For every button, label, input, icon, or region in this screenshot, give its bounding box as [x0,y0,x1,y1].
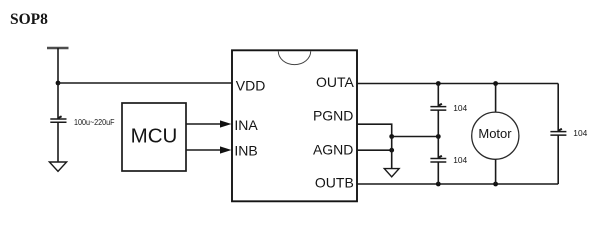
svg-text:100u~220uF: 100u~220uF [74,117,115,127]
ground (left) [49,162,66,171]
wire: C1 to ground [57,122,59,162]
node dot OUTA/motor [493,81,498,86]
node dot PGND/AGND mid [389,134,394,139]
svg-text:SOP8: SOP8 [10,11,48,28]
svg-text:AGND: AGND [313,141,353,157]
svg-text:OUTA: OUTA [316,74,355,90]
wire: down to ground [391,137,393,169]
node dot AGND [389,148,394,153]
pin-1 notch [278,51,310,64]
node dot OUTB/C3 [436,182,441,187]
wire: MCU to INA (arrow) [186,120,232,127]
svg-text:INA: INA [234,117,258,133]
wire: C2 to centre tap [437,110,439,136]
capacitor C1 (electrolytic 100u~220uF) [50,116,66,122]
wire: PGND stub [357,124,392,136]
node dot OUTA/C2 [436,81,441,86]
wire: right rail down (OUTA side) [557,84,559,132]
capacitor C3 104 [430,156,446,162]
wire: AGND stub [357,149,392,151]
svg-text:VDD: VDD [236,78,266,94]
node: VDD junction dot [56,81,61,86]
motor M1 [472,112,519,159]
capacitor C4 104 [550,129,566,135]
svg-text:104: 104 [573,128,587,138]
MCU U2 box [122,103,186,171]
wire: OUTA rail [357,83,558,85]
svg-text:OUTB: OUTB [315,174,354,190]
wire: motor to OUTB rail [495,159,497,184]
svg-text:104: 104 [453,103,467,113]
ground (signal, right of chip) [384,169,399,177]
wire: MCU to INB (arrow) [186,146,232,153]
svg-text:104: 104 [453,155,467,165]
svg-text:PGND: PGND [313,108,353,124]
capacitor C2 104 [430,104,446,110]
wire: supply bar to VDD node [57,48,59,83]
svg-text:MCU: MCU [131,125,178,148]
wire: OUTA rail down to C2 [437,84,439,107]
wire: OUTA rail down to motor [495,84,497,113]
svg-text:Motor: Motor [478,126,512,141]
node dot centre tap [436,134,441,139]
wire: node down to capacitor C1 [57,83,59,119]
wire: C3 to OUTB rail [437,162,439,184]
node dot OUTB/motor [493,182,498,187]
VCC supply terminal bar [47,47,69,49]
wire: mid link to capacitor centre tap [392,136,439,138]
wire: OUTB rail [357,183,558,185]
wire: centre tap down to C3 [437,137,439,159]
wire: C4 to OUTB rail [557,135,559,184]
IC U1 SOP8 body [232,50,357,201]
svg-text:INB: INB [234,143,257,159]
wire: VDD rail to chip [58,82,232,84]
